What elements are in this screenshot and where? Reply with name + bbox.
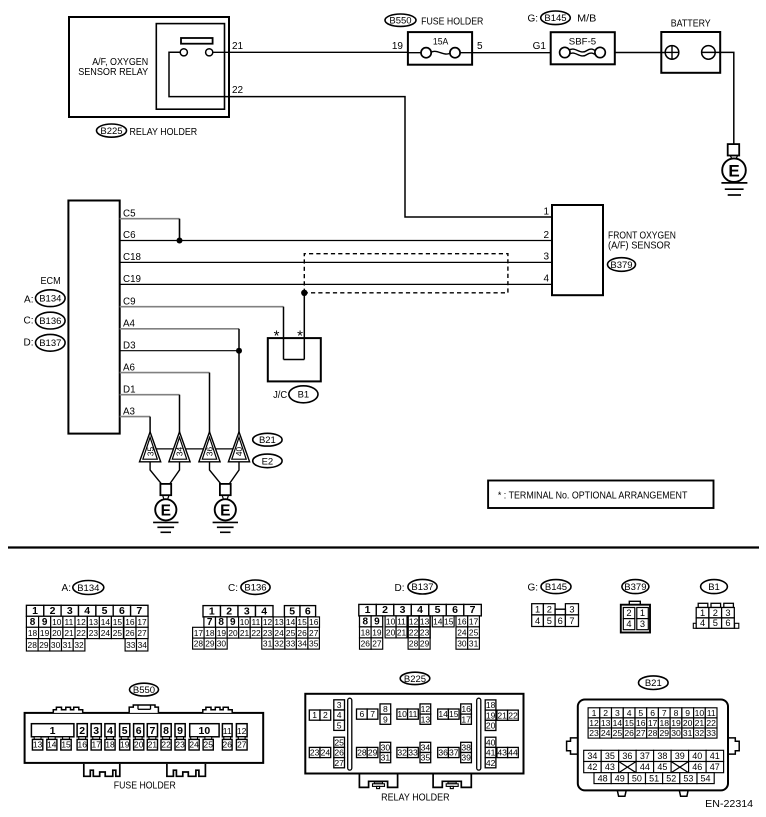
svg-text:27: 27 [372, 639, 382, 649]
svg-text:17: 17 [469, 617, 479, 627]
svg-text:15: 15 [61, 740, 71, 750]
connector B21 pin grid upper [588, 708, 717, 738]
SBF-5 fuse box [551, 32, 615, 64]
B21 ellipse label [253, 433, 282, 446]
svg-text:37: 37 [449, 748, 459, 758]
svg-text:30: 30 [671, 728, 681, 738]
svg-text:23: 23 [589, 728, 599, 738]
svg-text:17: 17 [92, 740, 102, 750]
svg-text:31: 31 [469, 639, 479, 649]
svg-text:6: 6 [119, 605, 125, 617]
svg-text:2: 2 [543, 230, 549, 241]
svg-text:J/C: J/C [273, 390, 287, 401]
wires triangles 35/34 to ground 1 [150, 462, 161, 484]
svg-text:D1: D1 [123, 384, 136, 395]
svg-text:16: 16 [457, 617, 467, 627]
svg-text:4: 4 [261, 605, 267, 617]
relay holder separator bar right [477, 698, 481, 770]
note box terminal optional arrangement [488, 481, 713, 509]
svg-text:C19: C19 [123, 274, 141, 285]
svg-text:27: 27 [237, 740, 247, 750]
svg-text:B136: B136 [39, 316, 61, 327]
svg-text:26: 26 [223, 740, 233, 750]
node junction A4-D3 [236, 348, 242, 354]
svg-text:23: 23 [420, 628, 430, 638]
B225 ellipse label [97, 124, 127, 137]
svg-text:28: 28 [194, 639, 204, 649]
svg-text:30: 30 [217, 639, 227, 649]
svg-text:22: 22 [251, 628, 261, 638]
svg-text:26: 26 [361, 639, 371, 649]
connector B21 pin grid lower [594, 773, 714, 784]
wire C6 to sensor pin 2 [120, 240, 552, 242]
svg-text:31: 31 [683, 728, 693, 738]
svg-text:6: 6 [452, 604, 458, 616]
svg-text:1: 1 [640, 608, 645, 618]
svg-text:15A: 15A [433, 37, 449, 48]
svg-text:9: 9 [177, 725, 183, 737]
svg-text:25: 25 [469, 628, 479, 638]
svg-text:18: 18 [105, 740, 115, 750]
svg-text:B134: B134 [77, 583, 99, 594]
svg-text:11: 11 [409, 709, 418, 719]
connector B1 label [701, 580, 728, 594]
svg-text:15: 15 [113, 617, 123, 627]
svg-text:D:: D: [24, 338, 34, 349]
wire D1 vertical to triangle 34 [179, 395, 181, 433]
svg-text:7: 7 [136, 605, 142, 617]
svg-text:B550: B550 [133, 685, 155, 696]
svg-text:1: 1 [50, 725, 56, 737]
svg-text:A6: A6 [123, 362, 136, 373]
fuse holder bottom tab 2 [167, 764, 206, 776]
connector B145 pin grid [532, 604, 579, 627]
svg-text:*: * [297, 328, 303, 345]
connector B21 label [639, 676, 669, 690]
wire fuse to SBF-5 [472, 52, 551, 54]
svg-text:21: 21 [232, 41, 244, 52]
fuse symbol 15A [408, 51, 472, 54]
svg-text:47: 47 [710, 762, 720, 772]
svg-text:E: E [161, 503, 171, 520]
svg-text:5: 5 [435, 604, 441, 616]
connector B21 pin grid middle [584, 750, 724, 772]
wire A4 vertical to triangle 40 [238, 329, 240, 433]
svg-text:5: 5 [638, 708, 643, 718]
svg-text:52: 52 [666, 773, 676, 783]
fuse holder B550 box 15A [408, 32, 472, 65]
svg-text:22: 22 [76, 628, 86, 638]
svg-text:2: 2 [547, 604, 552, 614]
wire A6 vertical to triangle 36 [209, 373, 211, 433]
svg-text:24: 24 [101, 628, 111, 638]
battery minus terminal [702, 46, 716, 60]
svg-text:A4: A4 [123, 319, 136, 330]
svg-text:9: 9 [685, 708, 690, 718]
svg-text:25: 25 [113, 628, 123, 638]
svg-text:50: 50 [632, 773, 642, 783]
svg-text:3: 3 [543, 252, 549, 263]
svg-text:11: 11 [223, 726, 232, 736]
svg-text:4: 4 [84, 605, 90, 617]
svg-text:5: 5 [102, 605, 108, 617]
svg-text:29: 29 [39, 640, 49, 650]
svg-text:4: 4 [626, 619, 631, 629]
svg-text:53: 53 [683, 773, 693, 783]
svg-text:20: 20 [228, 628, 238, 638]
connector B550 label [130, 683, 159, 696]
svg-text:43: 43 [497, 748, 507, 758]
svg-text:4: 4 [107, 725, 113, 737]
svg-text:9: 9 [383, 714, 388, 724]
svg-text:2: 2 [226, 605, 232, 617]
svg-text:4: 4 [543, 274, 549, 285]
connector B379 label [622, 580, 649, 594]
svg-text:10: 10 [695, 708, 705, 718]
svg-text:45: 45 [657, 762, 667, 772]
svg-text:16: 16 [309, 617, 319, 627]
svg-text:25: 25 [334, 737, 344, 747]
svg-text:7: 7 [662, 708, 667, 718]
svg-text:3: 3 [244, 605, 250, 617]
svg-text:B225: B225 [100, 126, 122, 137]
svg-text:23: 23 [263, 628, 273, 638]
svg-text:7: 7 [207, 617, 213, 628]
svg-text:2: 2 [713, 608, 718, 618]
svg-text:21: 21 [695, 718, 705, 728]
ground E symbol battery [728, 144, 740, 155]
svg-text:5: 5 [713, 618, 718, 628]
svg-text:7: 7 [470, 604, 476, 616]
svg-text:34: 34 [587, 751, 597, 761]
svg-text:3: 3 [93, 725, 99, 737]
svg-text:6: 6 [305, 605, 311, 617]
E2 ellipse label [253, 454, 282, 468]
svg-text:14: 14 [286, 617, 296, 627]
svg-text:C:: C: [24, 315, 34, 326]
svg-text:14: 14 [613, 718, 623, 728]
relay coil bar [181, 38, 213, 44]
svg-text:34: 34 [298, 639, 308, 649]
svg-text:12: 12 [237, 726, 247, 736]
svg-text:19: 19 [40, 628, 50, 638]
svg-text:4: 4 [417, 604, 423, 616]
svg-text:1: 1 [592, 708, 597, 718]
svg-text:M/B: M/B [577, 14, 597, 25]
svg-text:38: 38 [657, 751, 667, 761]
svg-text:32: 32 [74, 640, 84, 650]
svg-text:37: 37 [640, 751, 650, 761]
svg-text:3: 3 [725, 608, 730, 618]
svg-text:32: 32 [274, 639, 284, 649]
svg-text:8: 8 [218, 617, 224, 628]
svg-text:11: 11 [65, 617, 74, 627]
wires triangles 36/40 to ground 2 [210, 462, 221, 484]
svg-text:34: 34 [421, 743, 431, 753]
connector B1 pin grid [693, 603, 739, 628]
B21 bottom tab 1 [617, 790, 626, 796]
svg-text:35: 35 [421, 753, 431, 763]
svg-text:(A/F) SENSOR: (A/F) SENSOR [608, 241, 671, 252]
svg-text:22: 22 [161, 740, 171, 750]
wire D3 [120, 350, 239, 352]
svg-text:18: 18 [660, 718, 670, 728]
svg-text:12: 12 [409, 617, 419, 627]
svg-text:25: 25 [613, 728, 623, 738]
svg-text:21: 21 [397, 628, 407, 638]
svg-text:8: 8 [30, 617, 36, 628]
wire A6 [120, 372, 210, 374]
svg-text:29: 29 [660, 728, 670, 738]
svg-text:B137: B137 [39, 338, 61, 349]
svg-text:23: 23 [175, 740, 185, 750]
svg-text:5: 5 [547, 616, 552, 626]
svg-text:11: 11 [397, 617, 406, 627]
svg-text:25: 25 [286, 628, 296, 638]
B21 crossed-out cell 1 [619, 762, 636, 773]
svg-text:2: 2 [323, 710, 328, 720]
svg-text:1: 1 [535, 604, 540, 614]
svg-text:33: 33 [126, 640, 136, 650]
svg-text:3: 3 [569, 604, 574, 614]
svg-text:1: 1 [700, 608, 705, 618]
svg-text:14: 14 [47, 740, 57, 750]
svg-text:19: 19 [372, 628, 382, 638]
relay inner box [156, 24, 224, 110]
svg-text:G:: G: [527, 582, 538, 593]
svg-text:18: 18 [28, 628, 38, 638]
svg-text:14: 14 [101, 617, 111, 627]
svg-text:39: 39 [461, 753, 471, 763]
connector B137 pin grid [359, 604, 482, 649]
B550 ellipse label top [385, 14, 416, 26]
svg-text:6: 6 [136, 725, 142, 737]
svg-text:9: 9 [230, 617, 236, 628]
svg-text:22: 22 [508, 710, 518, 720]
svg-text:B136: B136 [244, 583, 266, 594]
svg-text:5: 5 [337, 720, 342, 730]
connector triangle 35 [140, 432, 161, 462]
relay holder B225 pin grid [309, 700, 518, 768]
svg-text:15: 15 [444, 617, 454, 627]
svg-text:20: 20 [683, 718, 693, 728]
svg-text:29: 29 [205, 639, 215, 649]
svg-text:54: 54 [700, 773, 710, 783]
battery box [661, 32, 720, 73]
svg-text:38: 38 [461, 743, 471, 753]
svg-text:43: 43 [605, 762, 615, 772]
svg-text:12: 12 [76, 617, 86, 627]
svg-text:D:: D: [395, 583, 405, 594]
J/C internal notch bottom [284, 359, 305, 361]
svg-text:30: 30 [457, 639, 467, 649]
relay holder bottom tab 2 [433, 775, 471, 789]
svg-text:15: 15 [297, 617, 307, 627]
svg-text:B550: B550 [389, 16, 411, 27]
svg-text:27: 27 [309, 628, 319, 638]
svg-text:41: 41 [486, 748, 496, 758]
relay holder B225 body [305, 694, 523, 774]
svg-text:B145: B145 [544, 13, 566, 24]
svg-text:40: 40 [234, 447, 244, 457]
svg-text:33: 33 [706, 728, 716, 738]
ECM box [68, 201, 119, 434]
svg-text:20: 20 [52, 628, 62, 638]
svg-text:25: 25 [204, 740, 214, 750]
horizontal separator line [8, 546, 759, 548]
svg-text:1: 1 [209, 605, 215, 617]
wire A3 [120, 416, 150, 418]
svg-text:20: 20 [486, 721, 496, 731]
svg-text:31: 31 [63, 640, 73, 650]
svg-text:19: 19 [392, 41, 404, 52]
svg-text:26: 26 [125, 628, 135, 638]
svg-text:C9: C9 [123, 296, 136, 307]
svg-text:10: 10 [386, 617, 396, 627]
svg-text:29: 29 [420, 639, 430, 649]
svg-text:E: E [728, 161, 739, 180]
svg-text:13: 13 [89, 617, 99, 627]
wire D1 [120, 394, 180, 396]
svg-text:10: 10 [397, 709, 407, 719]
svg-text:D3: D3 [123, 340, 136, 351]
svg-text:18: 18 [486, 700, 496, 710]
svg-text:BATTERY: BATTERY [671, 19, 711, 30]
svg-text:*: * [274, 328, 280, 345]
wire A4 [120, 328, 239, 330]
svg-text:3: 3 [337, 700, 342, 710]
svg-text:2: 2 [603, 708, 608, 718]
svg-text:6: 6 [725, 618, 730, 628]
svg-text:8: 8 [363, 617, 369, 628]
svg-text:30: 30 [51, 640, 61, 650]
fuse holder B550 pin grid [31, 724, 247, 750]
relay holder bottom tab 1 [359, 775, 397, 789]
svg-text:49: 49 [615, 773, 625, 783]
svg-text:27: 27 [636, 728, 646, 738]
svg-text:B134: B134 [39, 294, 61, 305]
svg-text:16: 16 [636, 718, 646, 728]
svg-text:22: 22 [409, 628, 419, 638]
wire SBF-5 to battery [615, 52, 666, 54]
svg-text:4: 4 [700, 618, 705, 628]
svg-text:24: 24 [274, 628, 284, 638]
svg-text:32: 32 [695, 728, 705, 738]
svg-text:C:: C: [228, 583, 238, 594]
svg-text:8: 8 [163, 725, 169, 737]
front oxygen sensor box B379 [552, 205, 603, 295]
connector B225 label [400, 672, 430, 684]
svg-text:14: 14 [438, 709, 448, 719]
svg-text:48: 48 [598, 773, 608, 783]
svg-text:12: 12 [589, 718, 599, 728]
connector B21 body [578, 700, 728, 791]
wire C5 vertical to C6 junction [179, 219, 181, 241]
svg-text:31: 31 [263, 639, 273, 649]
svg-text:2: 2 [382, 604, 388, 616]
wire A3 vertical to triangle 35 [149, 417, 151, 433]
svg-text:36: 36 [205, 447, 215, 457]
B21 left bracket [567, 738, 578, 754]
svg-text:19: 19 [217, 628, 227, 638]
svg-text:28: 28 [409, 639, 419, 649]
svg-text:42: 42 [587, 762, 597, 772]
svg-text:34: 34 [175, 447, 185, 457]
svg-text:28: 28 [28, 640, 38, 650]
svg-text:ECM: ECM [41, 276, 61, 287]
svg-text:39: 39 [675, 751, 685, 761]
svg-text:51: 51 [649, 773, 659, 783]
svg-text:22: 22 [706, 718, 716, 728]
B379 ellipse label [608, 258, 636, 272]
svg-text:13: 13 [421, 714, 431, 724]
relay wire from left contact to pin 22 [169, 52, 229, 96]
wire junction to J/C [303, 293, 305, 360]
svg-text:13: 13 [601, 718, 611, 728]
svg-text:6: 6 [650, 708, 655, 718]
ground E symbol 1 [160, 484, 171, 495]
relay holder B225 outer box [69, 17, 229, 117]
wire battery to ground [702, 52, 734, 144]
svg-text:1: 1 [312, 710, 317, 720]
svg-text:28: 28 [648, 728, 658, 738]
svg-text:18: 18 [205, 628, 215, 638]
relay holder separator bar left [348, 698, 352, 770]
svg-text:B21: B21 [645, 678, 662, 689]
svg-text:11: 11 [252, 617, 261, 627]
svg-text:20: 20 [134, 740, 144, 750]
connector triangle 36 [199, 432, 220, 462]
svg-text:46: 46 [692, 762, 702, 772]
svg-text:33: 33 [408, 748, 418, 758]
svg-text:1: 1 [32, 605, 38, 617]
svg-text:13: 13 [274, 617, 284, 627]
wire C19 to sensor pin 4 [120, 283, 552, 285]
svg-text:34: 34 [138, 640, 148, 650]
svg-text:9: 9 [42, 617, 48, 628]
svg-text:24: 24 [321, 748, 331, 758]
svg-text:A3: A3 [123, 406, 136, 417]
svg-text:30: 30 [381, 743, 391, 753]
svg-text:B145: B145 [545, 582, 567, 593]
svg-text:C18: C18 [123, 252, 142, 263]
svg-text:17: 17 [137, 617, 147, 627]
svg-text:24: 24 [457, 628, 467, 638]
svg-text:40: 40 [692, 751, 702, 761]
wire C18 to sensor pin 3 [120, 261, 552, 263]
svg-text:19: 19 [671, 718, 681, 728]
svg-text:14: 14 [433, 617, 443, 627]
wire C5 [120, 218, 180, 220]
svg-text:7: 7 [370, 709, 375, 719]
svg-text:17: 17 [461, 714, 471, 724]
fuse holder B550 body [25, 705, 264, 763]
svg-text:27: 27 [137, 628, 147, 638]
svg-text:FUSE HOLDER: FUSE HOLDER [421, 16, 483, 27]
svg-text:12: 12 [421, 704, 431, 714]
svg-text:12: 12 [263, 617, 273, 627]
svg-text:7: 7 [569, 616, 574, 626]
svg-text:A:: A: [24, 294, 33, 305]
svg-text:9: 9 [374, 617, 380, 628]
svg-text:RELAY HOLDER: RELAY HOLDER [381, 793, 450, 804]
svg-text:35: 35 [309, 639, 319, 649]
svg-text:44: 44 [640, 762, 650, 772]
svg-text:36: 36 [622, 751, 632, 761]
svg-text:G1: G1 [533, 41, 547, 52]
svg-text:3: 3 [640, 619, 645, 629]
svg-text:15: 15 [624, 718, 634, 728]
